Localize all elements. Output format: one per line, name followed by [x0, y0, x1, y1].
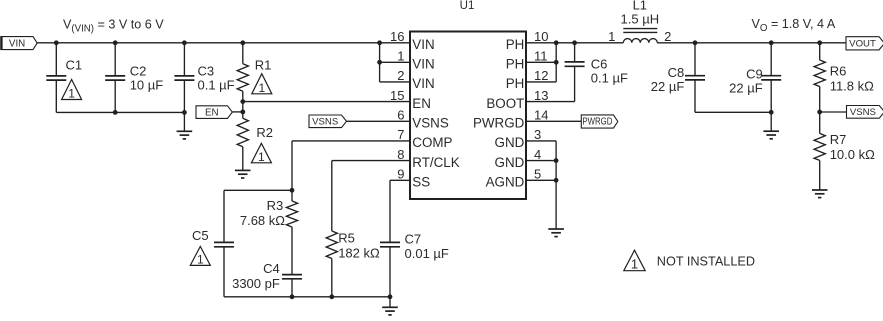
- wire: VIN rail to U1 pin 16: [37, 42, 410, 44]
- svg-text:BOOT: BOOT: [486, 96, 524, 111]
- capacitor C3 branch wires: [183, 43, 185, 76]
- VIN tag left bar: [0, 36, 2, 50]
- svg-text:R5: R5: [338, 231, 355, 246]
- svg-text:VIN: VIN: [412, 76, 434, 91]
- resistor R7: [814, 133, 825, 160]
- wire: R5 to bottom bus: [331, 259, 333, 297]
- wire: to pin 1: [380, 61, 410, 63]
- svg-text:11.8 kΩ: 11.8 kΩ: [830, 78, 874, 93]
- svg-text:C2: C2: [130, 64, 147, 79]
- svg-text:EN: EN: [205, 107, 219, 118]
- not-installed flag R1 (triangle 1): [252, 74, 272, 95]
- net tag VSNS (input): [309, 115, 347, 128]
- svg-text:1: 1: [197, 252, 204, 266]
- wire: SS from U1 pin 9: [390, 179, 410, 181]
- svg-text:6: 6: [397, 108, 404, 123]
- svg-text:PWRGD: PWRGD: [473, 116, 525, 131]
- svg-text:22 µF: 22 µF: [729, 80, 763, 95]
- capacitor C8 wires: [694, 43, 696, 76]
- U1 pin 4 (GND) number+name: [495, 147, 542, 170]
- not-installed flag R2 (triangle 1): [251, 143, 271, 164]
- wire: R6 stem: [819, 43, 821, 60]
- capacitor C5: [214, 242, 234, 246]
- resistor R6: [814, 60, 825, 87]
- U1 pin 15 (EN) number+name: [390, 88, 431, 111]
- svg-text:13: 13: [534, 88, 548, 103]
- svg-text:1.5 µH: 1.5 µH: [621, 12, 660, 27]
- svg-text:12: 12: [534, 68, 548, 83]
- resistor R1: [237, 64, 248, 91]
- svg-text:R1: R1: [255, 58, 272, 73]
- net tag VIN: [1, 37, 37, 50]
- svg-text:1: 1: [258, 81, 265, 95]
- svg-text:10.0 kΩ: 10.0 kΩ: [830, 147, 875, 162]
- svg-text:9: 9: [397, 167, 404, 182]
- svg-text:VIN: VIN: [9, 38, 25, 49]
- svg-text:2: 2: [664, 29, 671, 44]
- svg-text:NOT INSTALLED: NOT INSTALLED: [657, 254, 755, 268]
- U1 pin 11 (PH) number+name: [506, 49, 548, 72]
- U1 pin 6 (VSNS) number+name: [397, 108, 449, 131]
- svg-text:2: 2: [397, 68, 404, 83]
- ground: U1 GND/AGND: [548, 229, 564, 237]
- wire: PH rail: [526, 42, 623, 44]
- wire: R3 to C4: [291, 227, 293, 275]
- wire: R2 to ground: [242, 147, 244, 171]
- resistor R3: [286, 201, 297, 227]
- svg-text:14: 14: [534, 108, 548, 123]
- wire: GND pins to ground: [526, 140, 556, 142]
- svg-text:0.01 µF: 0.01 µF: [405, 246, 449, 261]
- svg-text:8: 8: [397, 147, 404, 162]
- svg-text:VOUT: VOUT: [849, 39, 876, 50]
- wire: EN tag stub: [232, 111, 243, 113]
- net tag EN: [196, 106, 232, 119]
- capacitor C2: [105, 76, 125, 80]
- U1 pin 16 (VIN) number+name: [390, 29, 435, 52]
- wire: compensation bottom bus: [224, 296, 390, 298]
- svg-text:SS: SS: [412, 175, 430, 190]
- svg-text:0.1 µF: 0.1 µF: [198, 78, 235, 93]
- ground: compensation bus: [382, 307, 398, 315]
- ground: R7: [812, 190, 828, 198]
- svg-text:15: 15: [390, 88, 404, 103]
- svg-text:PH: PH: [506, 37, 525, 52]
- svg-text:1: 1: [258, 150, 265, 164]
- U1 pin 14 (PWRGD) number+name: [473, 108, 548, 131]
- wire: R1 top stem: [242, 43, 244, 64]
- net tag PWRGD: [581, 115, 618, 128]
- capacitor C8: [685, 76, 705, 80]
- wire: PWRGD stub: [526, 120, 581, 122]
- svg-text:GND: GND: [495, 155, 525, 170]
- svg-text:16: 16: [390, 29, 404, 44]
- svg-text:VIN: VIN: [412, 57, 434, 72]
- svg-text:1: 1: [397, 49, 404, 64]
- svg-text:1: 1: [608, 29, 615, 44]
- svg-text:0.1 µF: 0.1 µF: [591, 70, 628, 85]
- U1 pin 8 (RT/CLK) number+name: [397, 147, 459, 170]
- U1 pin 1 (VIN) number+name: [397, 49, 434, 72]
- svg-text:3: 3: [534, 127, 541, 142]
- svg-text:1: 1: [68, 87, 75, 101]
- svg-text:22 µF: 22 µF: [651, 79, 685, 94]
- U1 pin 13 (BOOT) number+name: [486, 88, 548, 111]
- capacitor C4: [282, 275, 302, 279]
- wire: R3 top stem: [291, 190, 293, 201]
- resistor R2: [237, 118, 248, 147]
- svg-text:C1: C1: [66, 58, 83, 73]
- U1 pin 2 (VIN) number+name: [397, 68, 434, 91]
- svg-text:C6: C6: [591, 56, 608, 71]
- ground: output caps: [763, 131, 779, 139]
- wire: VIN vertical to pins 1,2: [379, 43, 381, 82]
- svg-text:3300 pF: 3300 pF: [232, 276, 280, 291]
- capacitor C7: [380, 242, 400, 246]
- wire: C7 to bottom bus / ground stem: [389, 247, 391, 307]
- capacitor C3: [174, 76, 194, 80]
- wire: VSNS tag stub: [820, 111, 847, 113]
- wire: to pin 2: [380, 81, 410, 83]
- svg-text:C9: C9: [746, 67, 763, 82]
- capacitor C9 wires: [770, 43, 772, 76]
- wire: PH pins 11,12 tie: [555, 43, 557, 82]
- svg-text:C5: C5: [192, 228, 209, 243]
- svg-text:4: 4: [534, 147, 541, 162]
- svg-text:RT/CLK: RT/CLK: [412, 155, 459, 170]
- wire: R7 to ground: [819, 160, 821, 190]
- resistor R5: [326, 231, 337, 259]
- svg-text:PWRGD: PWRGD: [582, 117, 612, 128]
- capacitor C9: [761, 76, 781, 80]
- wire: C4 to bottom bus: [291, 279, 293, 297]
- svg-text:10: 10: [534, 29, 548, 44]
- U1 pin 5 (AGND) number+name: [486, 167, 542, 190]
- svg-text:11: 11: [534, 49, 548, 64]
- svg-text:182 kΩ: 182 kΩ: [338, 246, 380, 261]
- U1 pin 12 (PH) number+name: [506, 68, 549, 91]
- svg-text:VSNS: VSNS: [850, 107, 876, 118]
- wire: input caps bottom bus: [56, 111, 184, 113]
- wire: R6 bottom to VSNS node: [819, 87, 821, 134]
- svg-text:R2: R2: [256, 125, 273, 140]
- U1 pin 7 (COMP) number+name: [397, 127, 452, 150]
- svg-text:10 µF: 10 µF: [130, 78, 164, 93]
- wire: COMP from U1 pin 7: [292, 140, 410, 142]
- capacitor C6: [565, 62, 585, 66]
- svg-text:COMP: COMP: [412, 135, 452, 150]
- wire: EN net to U1 pin 15: [243, 101, 410, 103]
- svg-text:PH: PH: [506, 57, 525, 72]
- net tag VSNS (feedback): [847, 106, 883, 119]
- U1 pin 3 (GND) number+name: [495, 127, 542, 150]
- svg-text:R6: R6: [830, 63, 847, 78]
- capacitor C1: [46, 76, 66, 80]
- wire: C5 stem: [223, 190, 225, 242]
- wire: COMP node horizontal: [224, 189, 292, 191]
- svg-text:R7: R7: [830, 132, 847, 147]
- capacitor C6 (boot) wires: [574, 43, 576, 62]
- svg-text:C8: C8: [668, 65, 685, 80]
- op-amp / regulator U1 box: [410, 32, 526, 200]
- svg-text:C4: C4: [263, 261, 280, 276]
- svg-text:PH: PH: [506, 76, 525, 91]
- capacitor C2 branch wires: [114, 43, 116, 76]
- svg-text:EN: EN: [412, 96, 431, 111]
- svg-text:C7: C7: [405, 232, 422, 247]
- svg-text:AGND: AGND: [486, 175, 525, 190]
- ground: input caps: [177, 131, 193, 139]
- svg-text:5: 5: [534, 167, 541, 182]
- U1 pin 9 (SS) number+name: [397, 167, 430, 190]
- svg-text:VSNS: VSNS: [312, 117, 338, 128]
- ground: R2: [235, 170, 251, 178]
- not-installed flag C1 (triangle 1): [62, 80, 82, 101]
- U1 pin 10 (PH) number+name: [506, 29, 549, 52]
- wire: R1 bottom / R2 top: [242, 91, 244, 118]
- net tag VOUT: [846, 37, 883, 50]
- svg-text:VIN: VIN: [412, 37, 434, 52]
- svg-text:7.68 kΩ: 7.68 kΩ: [240, 213, 285, 228]
- wire: VSNS to U1 pin 6: [347, 120, 411, 122]
- svg-text:U1: U1: [460, 0, 475, 12]
- svg-text:1: 1: [631, 257, 638, 272]
- wire: RT/CLK from U1 pin 8: [332, 160, 410, 162]
- inductor L1: [623, 29, 657, 43]
- not-installed flag C5 (triangle 1): [190, 246, 210, 266]
- svg-text:7: 7: [397, 127, 404, 142]
- svg-text:C3: C3: [198, 64, 215, 79]
- svg-text:VSNS: VSNS: [412, 116, 449, 131]
- svg-text:GND: GND: [495, 135, 525, 150]
- wire: C8-C9 bottom tie: [695, 111, 771, 113]
- capacitor C1 branch wires: [55, 43, 57, 76]
- not-installed flag legend (triangle 1): [624, 250, 645, 272]
- svg-text:R3: R3: [267, 198, 284, 213]
